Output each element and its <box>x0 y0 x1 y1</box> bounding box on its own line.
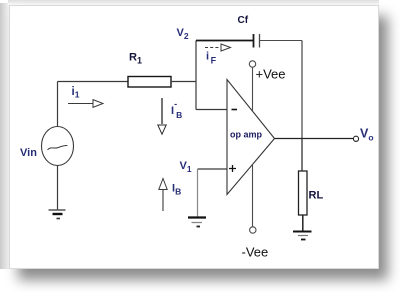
svg-text:R1: R1 <box>129 52 142 66</box>
resistor R1 <box>128 77 171 88</box>
wire feedback right vertical <box>301 41 303 139</box>
op-amp non-inverting input symbol <box>229 165 236 172</box>
svg-text:op amp: op amp <box>230 130 263 140</box>
resistor RL <box>299 171 308 215</box>
svg-text:+Vee: +Vee <box>256 67 286 82</box>
wire RL to ground <box>302 215 304 232</box>
svg-text:IB: IB <box>172 183 181 197</box>
wire Vin top to input node <box>57 82 59 127</box>
current arrow iF <box>205 44 231 51</box>
wire junction to RL <box>301 139 303 172</box>
op-amp inverting input symbol <box>232 109 238 111</box>
svg-text:V2: V2 <box>177 27 189 41</box>
ground under Vin <box>49 210 66 219</box>
capacitor Cf <box>254 34 260 48</box>
svg-text:iF: iF <box>206 51 217 66</box>
wire input node to R1 <box>58 81 129 83</box>
output terminal Vo <box>353 136 358 141</box>
power terminal -Vee <box>250 164 256 233</box>
svg-text:V1: V1 <box>180 160 192 174</box>
wire V1 to ground <box>197 169 199 218</box>
wire Vin to ground <box>57 166 59 211</box>
svg-text:Vin: Vin <box>20 147 37 159</box>
ground under RL <box>293 232 312 240</box>
svg-text:i1: i1 <box>72 86 80 100</box>
wire Cf to feedback right corner <box>260 40 303 42</box>
wire output <box>275 138 354 140</box>
wire to inverting input <box>196 109 227 111</box>
current arrow IB-minus <box>158 98 166 134</box>
wire R1 to node V2 <box>171 81 196 83</box>
power terminal +Vee <box>249 61 255 111</box>
current arrow IB <box>159 179 167 212</box>
current arrow i1 <box>68 100 103 108</box>
svg-text:Vo: Vo <box>360 127 374 143</box>
ground under V1 <box>188 218 206 227</box>
svg-text:RL: RL <box>309 190 324 202</box>
op-amp U1 <box>227 80 275 195</box>
svg-text:-Vee: -Vee <box>242 245 269 260</box>
wire feedback left V2 to Cf <box>196 40 253 42</box>
wire V1 to non-inverting input <box>198 168 228 170</box>
svg-text:Cf: Cf <box>238 15 249 26</box>
wire node V2 vertical <box>195 41 197 110</box>
source Vin <box>42 127 74 166</box>
svg-text:I-B: I-B <box>171 99 182 120</box>
